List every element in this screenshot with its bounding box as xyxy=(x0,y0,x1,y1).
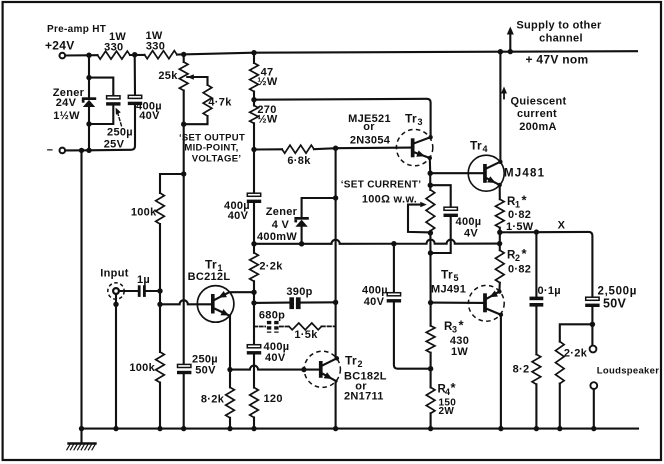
node 0.1u branch xyxy=(534,229,539,234)
label R3 xyxy=(444,318,465,335)
label 390p xyxy=(286,286,312,298)
svg-text:Pre-amp HT: Pre-amp HT xyxy=(47,24,106,35)
node X line right xyxy=(497,241,502,246)
label 50V xyxy=(603,297,627,311)
label SET CURRENT xyxy=(341,180,422,191)
label channel xyxy=(539,33,583,45)
svg-text:1µ: 1µ xyxy=(137,274,150,286)
svg-text:*: * xyxy=(459,318,465,333)
resistor 2.2k xyxy=(250,253,259,281)
label 2N3054 xyxy=(350,134,391,146)
wire Tr5 collector down xyxy=(500,315,502,429)
svg-text:4·7k: 4·7k xyxy=(208,97,232,109)
label Tr2 xyxy=(345,354,363,370)
wire 400u out top xyxy=(393,244,395,293)
svg-text:+ 47V nom: + 47V nom xyxy=(525,53,588,67)
label 4V xyxy=(272,219,290,231)
svg-text:680p: 680p xyxy=(259,309,285,321)
resistor 330 1W (first) xyxy=(98,31,131,59)
svg-text:2: 2 xyxy=(358,359,363,369)
wire 250u bottom xyxy=(89,106,113,124)
node input bias junctions xyxy=(157,288,162,307)
svg-text:2N3054: 2N3054 xyxy=(350,134,391,146)
transistor Tr5 xyxy=(468,285,504,321)
svg-text:2W: 2W xyxy=(439,406,455,417)
label 400u 4V b xyxy=(464,228,478,240)
svg-text:200mA: 200mA xyxy=(519,121,557,133)
resistor 120 xyxy=(250,388,259,418)
svg-text:Input: Input xyxy=(100,267,128,279)
svg-text:Tr: Tr xyxy=(441,268,453,282)
wire 400u lower to 120 xyxy=(253,355,255,388)
wire 120 bottom xyxy=(253,418,255,429)
resistor 25k preset xyxy=(179,62,188,91)
node Tr1 emitter junction xyxy=(251,290,256,295)
wire Tr3 collector top xyxy=(254,99,431,137)
svg-text:*: * xyxy=(522,193,528,208)
capacitor 400u 4V xyxy=(444,207,458,217)
svg-text:330: 330 xyxy=(146,41,165,53)
wire cap4V bottom xyxy=(431,217,451,253)
label or (Tr2) xyxy=(355,381,367,393)
label Tr5 xyxy=(441,268,459,284)
label SET OUTPUT xyxy=(179,132,245,143)
wire 47-270 xyxy=(253,53,255,194)
label 25V xyxy=(104,139,125,151)
node Tr3 base line xyxy=(333,146,338,151)
resistor R1 0.82 xyxy=(496,199,505,228)
label 47 xyxy=(261,67,274,79)
label 2.2k out xyxy=(564,348,588,360)
label Loudspeaker xyxy=(597,366,659,377)
label 100k lower xyxy=(129,362,155,374)
label 100R ww xyxy=(362,194,417,206)
label or (Tr3) xyxy=(363,121,375,133)
wire Tr3 base xyxy=(336,147,411,150)
capacitor 400u 40V (output) xyxy=(387,293,401,303)
svg-text:3: 3 xyxy=(418,117,423,127)
label 680p xyxy=(259,309,285,321)
node 270 bottom xyxy=(251,147,256,152)
svg-text:40V: 40V xyxy=(228,210,249,222)
svg-text:6·8k: 6·8k xyxy=(287,155,311,167)
label 1u xyxy=(137,274,150,286)
wire 2500u bottom xyxy=(591,307,593,346)
label +47V nom xyxy=(525,53,588,67)
resistor 100R preset xyxy=(426,190,435,231)
label 250u 50V a xyxy=(192,354,218,366)
label 120 xyxy=(264,393,283,405)
label 400u out xyxy=(362,285,388,297)
terminal loudspeaker bottom xyxy=(590,382,597,389)
svg-text:*: * xyxy=(522,246,528,261)
resistor 4.7k xyxy=(203,85,212,116)
wire zener branch xyxy=(88,55,90,150)
node minus junctions xyxy=(79,148,92,153)
wire Tr1 collector drop xyxy=(229,316,231,370)
label Tr4 xyxy=(470,139,488,155)
label R2 xyxy=(507,246,528,263)
label 40V out xyxy=(364,296,385,308)
node zener4 on X line xyxy=(299,241,304,246)
node rail junctions xyxy=(86,49,513,58)
label R1 val xyxy=(508,209,531,221)
label 100k upper xyxy=(131,206,157,218)
wire left ground drop xyxy=(80,150,82,428)
svg-text:4 V: 4 V xyxy=(272,219,290,231)
terminal loudspeaker top xyxy=(590,346,597,353)
svg-text:VOLTAGE’: VOLTAGE’ xyxy=(192,154,242,165)
svg-text:40V: 40V xyxy=(265,352,286,364)
wire 100k branch xyxy=(160,174,184,429)
svg-text:Tr: Tr xyxy=(345,354,357,368)
label 47 halfW xyxy=(257,76,277,88)
resistor 8.2k xyxy=(226,370,235,429)
wiper 100R preset xyxy=(408,202,430,233)
wire Tr3 emitter xyxy=(429,158,432,173)
label 270 halfW xyxy=(257,113,277,125)
label R2 val xyxy=(508,264,531,276)
resistor 1.5k dashed net xyxy=(289,323,336,330)
svg-text:0·82: 0·82 xyxy=(508,264,531,276)
resistor 100k (lower) xyxy=(156,352,165,383)
wire 25k branch xyxy=(183,54,185,428)
node R1 bottom X xyxy=(497,230,502,235)
label Zener 4V xyxy=(266,206,298,218)
svg-text:8·2k: 8·2k xyxy=(201,393,225,405)
svg-text:400µ: 400µ xyxy=(362,285,388,297)
label Zener xyxy=(53,87,85,99)
svg-text:MJ481: MJ481 xyxy=(504,168,545,180)
svg-text:2·2k: 2·2k xyxy=(259,261,283,273)
terminal minus xyxy=(60,148,66,154)
label R4 W xyxy=(439,406,455,417)
node 47 bottom xyxy=(251,97,256,102)
label R4 xyxy=(438,380,457,397)
label Tr1 xyxy=(205,257,223,272)
label 25k xyxy=(158,70,178,82)
zener D1 24V xyxy=(82,97,96,107)
node Tr2 base xyxy=(301,367,306,372)
svg-text:2N1711: 2N1711 xyxy=(344,391,384,403)
node 390p junction xyxy=(251,300,256,305)
resistor 47 halfW xyxy=(250,63,259,92)
svg-text:250µ: 250µ xyxy=(107,126,133,138)
node zener top xyxy=(86,75,91,80)
svg-text:1·5k: 1·5k xyxy=(294,329,318,341)
resistor 2.2k out xyxy=(556,342,565,384)
svg-text:120: 120 xyxy=(264,393,283,405)
wire cap4V top xyxy=(430,185,450,207)
wire R3-R4 xyxy=(430,303,432,429)
wire 0.1u to 8.2 xyxy=(535,307,537,429)
svg-text:8·2: 8·2 xyxy=(513,364,530,376)
label MJ491 xyxy=(431,284,466,296)
ground symbol xyxy=(67,429,96,450)
svg-text:Zener: Zener xyxy=(266,206,298,218)
wire 270 junction to 6.8k xyxy=(254,148,336,149)
wire Tr4 collector xyxy=(499,52,501,162)
capacitor 2500u 50V xyxy=(585,297,599,307)
resistor R3 430 xyxy=(426,326,435,353)
capacitor 400u 40V (mid) xyxy=(247,193,261,203)
svg-text:current: current xyxy=(517,108,557,120)
capacitor 1u xyxy=(119,285,160,297)
svg-text:channel: channel xyxy=(539,33,583,45)
svg-text:40V: 40V xyxy=(364,296,385,308)
svg-text:25V: 25V xyxy=(104,139,125,151)
svg-text:‘SET CURRENT’: ‘SET CURRENT’ xyxy=(341,180,422,191)
wire input to Tr1 base xyxy=(160,300,211,304)
label 2.2k xyxy=(259,261,283,273)
svg-text:or: or xyxy=(363,121,375,133)
node jack xyxy=(113,302,118,307)
wire mid vertical xyxy=(335,148,337,428)
node 25k-4.7k junction xyxy=(181,122,186,127)
label 1.5k xyxy=(294,329,318,341)
svg-text:BC212L: BC212L xyxy=(188,271,231,283)
input jack xyxy=(108,283,124,299)
svg-text:Tr: Tr xyxy=(405,112,417,126)
svg-text:24V: 24V xyxy=(56,97,77,109)
label 2500u xyxy=(598,286,638,298)
label MID-POINT xyxy=(184,142,238,153)
wire zener4 bottom xyxy=(301,227,303,244)
wire X line xyxy=(500,232,593,297)
label 400u xyxy=(136,101,162,113)
label 24V xyxy=(56,97,77,109)
wire 400u#1 top xyxy=(134,55,136,96)
svg-text:400µ: 400µ xyxy=(456,216,482,228)
resistor 270 halfW xyxy=(250,106,259,124)
node R3-R4 junction xyxy=(428,366,433,371)
svg-text:50V: 50V xyxy=(195,365,216,377)
label 270 xyxy=(257,104,276,116)
transistor Tr1 xyxy=(197,286,254,323)
node pot top branch xyxy=(428,183,433,188)
svg-text:−: − xyxy=(47,145,54,157)
arrow to 250u xyxy=(116,108,122,126)
label Pre-amp HT xyxy=(47,24,106,35)
svg-text:½W: ½W xyxy=(257,76,277,88)
node 390p right xyxy=(333,300,338,305)
wire zener4 branch xyxy=(302,198,336,217)
label 4.7k xyxy=(208,97,232,109)
svg-text:0·1µ: 0·1µ xyxy=(538,285,561,297)
svg-text:Supply to other: Supply to other xyxy=(516,19,602,31)
svg-text:Loudspeaker: Loudspeaker xyxy=(597,366,659,377)
node 400u out branch xyxy=(391,241,396,246)
svg-text:400mW: 400mW xyxy=(257,231,297,243)
node Tr5 base junction xyxy=(428,300,433,305)
capacitor 400u 40V (left) xyxy=(128,95,142,105)
svg-text:40V: 40V xyxy=(139,110,160,122)
wire 2.2k out branch xyxy=(560,324,593,428)
capacitor 0.1u xyxy=(530,232,544,307)
wire Tr4 emitter to R1 xyxy=(499,185,501,199)
label 200mA xyxy=(519,121,557,133)
wire minus terminal xyxy=(65,149,89,151)
label +24V xyxy=(45,39,75,53)
label Tr3 xyxy=(405,112,423,128)
terminal +24V xyxy=(60,53,66,59)
svg-text:25k: 25k xyxy=(158,70,178,82)
label MJ481 xyxy=(504,168,545,180)
node pot bottom xyxy=(428,230,433,235)
svg-text:1½W: 1½W xyxy=(53,110,80,122)
svg-text:330: 330 xyxy=(104,42,123,54)
capacitor 400u 40V (lower) xyxy=(247,345,261,355)
wire +24V rail xyxy=(65,51,637,55)
svg-text:5: 5 xyxy=(454,273,459,283)
label R1 xyxy=(507,193,528,210)
transistor Tr2 xyxy=(304,351,341,387)
wire 400u out bottom xyxy=(394,302,431,368)
capacitor 250u 25V xyxy=(106,96,120,106)
wire Tr1-Tr2 xyxy=(230,366,304,370)
node Tr3 emitter junction xyxy=(428,171,433,176)
resistor R4 150 xyxy=(426,387,435,413)
label 6.8k xyxy=(287,155,311,167)
svg-text:390p: 390p xyxy=(286,286,312,298)
wire R1-R2 xyxy=(499,228,501,251)
label minus xyxy=(47,145,54,157)
resistor 6.8k xyxy=(282,145,314,153)
svg-text:+24V: +24V xyxy=(45,39,75,53)
label 400u lower xyxy=(264,341,290,353)
wire 400u mid bottom xyxy=(253,203,255,253)
svg-text:100k: 100k xyxy=(129,362,155,374)
label current xyxy=(517,108,557,120)
label R3 val xyxy=(450,335,469,347)
svg-text:100Ω w.w.: 100Ω w.w. xyxy=(362,194,417,206)
node speaker junction xyxy=(590,322,595,327)
wiper 25k xyxy=(187,74,207,85)
node bias branch xyxy=(181,171,186,176)
wire jack ground xyxy=(115,294,117,428)
label R4 val xyxy=(439,398,457,409)
svg-text:2·2k: 2·2k xyxy=(564,348,588,360)
transistor Tr4 xyxy=(468,155,504,191)
svg-text:0·82: 0·82 xyxy=(508,209,531,221)
label 400mW xyxy=(257,231,297,243)
label 40V mid xyxy=(228,210,249,222)
svg-text:½W: ½W xyxy=(257,113,277,125)
label VOLTAGE xyxy=(192,154,242,165)
label MJE521 xyxy=(348,113,391,125)
label R3 W xyxy=(451,346,468,358)
svg-text:MJ491: MJ491 xyxy=(431,284,466,296)
label 2N1711 xyxy=(344,391,384,403)
svg-text:*: * xyxy=(451,380,457,395)
transistor Tr3 xyxy=(396,129,432,165)
arrow supply to other channel xyxy=(507,27,514,52)
node zener4 branch xyxy=(333,195,338,200)
node ground rail junctions xyxy=(79,426,597,431)
wire 250u top xyxy=(89,78,113,96)
wire pot top xyxy=(429,173,431,302)
zener D2 4V xyxy=(294,217,308,227)
label 400u mid xyxy=(224,200,250,212)
label BC182L xyxy=(344,370,387,382)
resistor 8.2 xyxy=(532,354,541,384)
svg-text:Tr: Tr xyxy=(470,139,482,153)
svg-text:4: 4 xyxy=(483,144,488,154)
resistor 330 1W (second) xyxy=(145,30,178,59)
wire X feedback line xyxy=(254,240,500,244)
wire 4.7k bottom xyxy=(184,116,208,124)
label 40V lower xyxy=(265,352,286,364)
node zener bottom xyxy=(86,121,91,126)
wire ground rail xyxy=(82,428,639,430)
label Input xyxy=(100,267,128,279)
node cap4V join xyxy=(428,250,433,255)
label 8.2 xyxy=(513,364,530,376)
label BC212L xyxy=(188,271,231,283)
label 250u xyxy=(107,126,133,138)
capacitor 250u 50V xyxy=(177,364,191,374)
svg-text:Quiescent: Quiescent xyxy=(511,95,567,107)
wire speaker bottom xyxy=(593,389,595,429)
resistor R2 0.82 xyxy=(496,250,505,283)
svg-text:100k: 100k xyxy=(131,206,157,218)
svg-text:4V: 4V xyxy=(464,228,478,240)
label 1½W xyxy=(53,110,80,122)
wire Tr5 base xyxy=(431,302,484,304)
svg-text:X: X xyxy=(558,220,566,232)
label 400u 4V a xyxy=(456,216,482,228)
svg-text:MID-POINT,: MID-POINT, xyxy=(184,142,238,153)
wire R2 to Tr5 xyxy=(498,283,500,292)
label 0.1u xyxy=(538,285,561,297)
svg-text:1: 1 xyxy=(515,199,520,209)
label Quiescent xyxy=(511,95,567,107)
arrow quiescent current xyxy=(501,87,507,99)
svg-text:1W: 1W xyxy=(451,346,468,358)
label R1 W xyxy=(506,221,534,233)
wire 2.2k to Tr1 xyxy=(253,281,255,344)
label 40V xyxy=(139,110,160,122)
label 250u 50V b xyxy=(195,365,216,377)
capacitor 390p xyxy=(254,297,336,309)
wire Tr3-Tr4 xyxy=(430,172,483,174)
label 8.2k xyxy=(201,393,225,405)
svg-text:2: 2 xyxy=(515,253,520,263)
node X feedback left xyxy=(251,241,256,246)
node Tr1 collector xyxy=(227,367,232,372)
label Supply to other xyxy=(516,19,602,31)
resistor 100k (upper) xyxy=(156,193,165,224)
svg-text:Tr: Tr xyxy=(205,257,217,271)
wire 400u#1 bottom xyxy=(89,105,135,150)
svg-text:3: 3 xyxy=(452,324,457,334)
svg-text:50V: 50V xyxy=(603,297,627,311)
capacitor 680p dashed xyxy=(254,321,289,333)
label X xyxy=(558,220,566,232)
